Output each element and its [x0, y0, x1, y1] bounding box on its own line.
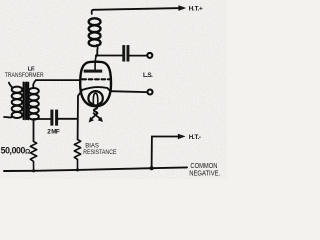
wire capacitor to LS top terminal	[129, 55, 146, 57]
terminal LS plus	[147, 53, 152, 58]
wire primary top lead	[9, 83, 13, 88]
cathode of V1	[82, 87, 110, 91]
grid of V1 dashed	[82, 78, 109, 80]
wire anode junction to coupling capacitor	[96, 55, 122, 57]
wire HT+ top rail	[93, 8, 180, 10]
wire filament X leg right	[94, 113, 101, 118]
svg-text:RESISTANCE: RESISTANCE	[83, 149, 117, 156]
wire secondary top lead to grid wire	[33, 80, 36, 88]
capacitor C2 coupling to LS	[122, 45, 129, 61]
anode plate of V1	[84, 70, 103, 73]
heater H1 circle inside V1	[88, 91, 102, 105]
wire 2MF branch right	[58, 118, 78, 120]
wire common negative bottom rail	[4, 167, 187, 171]
wire anode lead	[95, 56, 96, 70]
wire twisted pair rope	[94, 106, 97, 115]
wire grid lead to transformer secondary	[36, 79, 81, 81]
terminal LS minus	[148, 90, 153, 95]
wire cathode to LS bottom terminal	[110, 90, 146, 93]
svg-text:2 MF: 2 MF	[47, 129, 60, 136]
svg-text:TRANSFORMER: TRANSFORMER	[5, 72, 44, 79]
node HT- riser to rail	[150, 166, 154, 170]
wire filament lead V left	[90, 102, 96, 107]
arrowhead filament left	[89, 117, 94, 123]
node junction anode choke cap	[95, 54, 98, 57]
capacitor C1 2MF	[50, 110, 58, 126]
svg-text:50,000: 50,000	[1, 146, 26, 156]
node R1 to rail	[32, 169, 35, 172]
wire cathode left lead down to bias resistor	[78, 90, 83, 140]
transformer T1 core	[23, 82, 28, 119]
triode V1 envelope	[80, 62, 111, 107]
wire filament X leg left	[91, 113, 97, 119]
svg-text:Ω: Ω	[25, 149, 31, 156]
svg-text:H.T.-: H.T.-	[189, 134, 201, 141]
wire 2MF branch left	[34, 118, 51, 120]
resistor R2 bias resistance zigzag	[74, 140, 80, 170]
arrowhead HT-	[178, 134, 186, 140]
wire HT- riser	[152, 137, 180, 169]
arrowhead filament right	[98, 117, 103, 122]
svg-text:NEGATIVE.: NEGATIVE.	[189, 168, 220, 177]
wire secondary bottom lead down to 50000 resistor	[33, 119, 35, 141]
wire primary bottom lead to left edge	[4, 116, 12, 119]
wire choke bottom to anode junction	[96, 45, 99, 56]
svg-text:L.S.: L.S.	[143, 72, 153, 79]
arrowhead HT+	[178, 5, 186, 11]
heater filament loop	[93, 93, 97, 103]
resistor R1 50000 ohm zigzag	[30, 141, 36, 170]
node R2 to rail	[76, 168, 79, 171]
transformer T1 secondary winding	[29, 88, 39, 120]
wire filament lead V right	[96, 102, 102, 107]
transformer T1 primary winding	[12, 87, 23, 118]
svg-text:H.T.+: H.T.+	[189, 6, 203, 13]
wire corner from top rail into choke	[92, 10, 94, 14]
inductor L1 output choke	[89, 18, 101, 46]
